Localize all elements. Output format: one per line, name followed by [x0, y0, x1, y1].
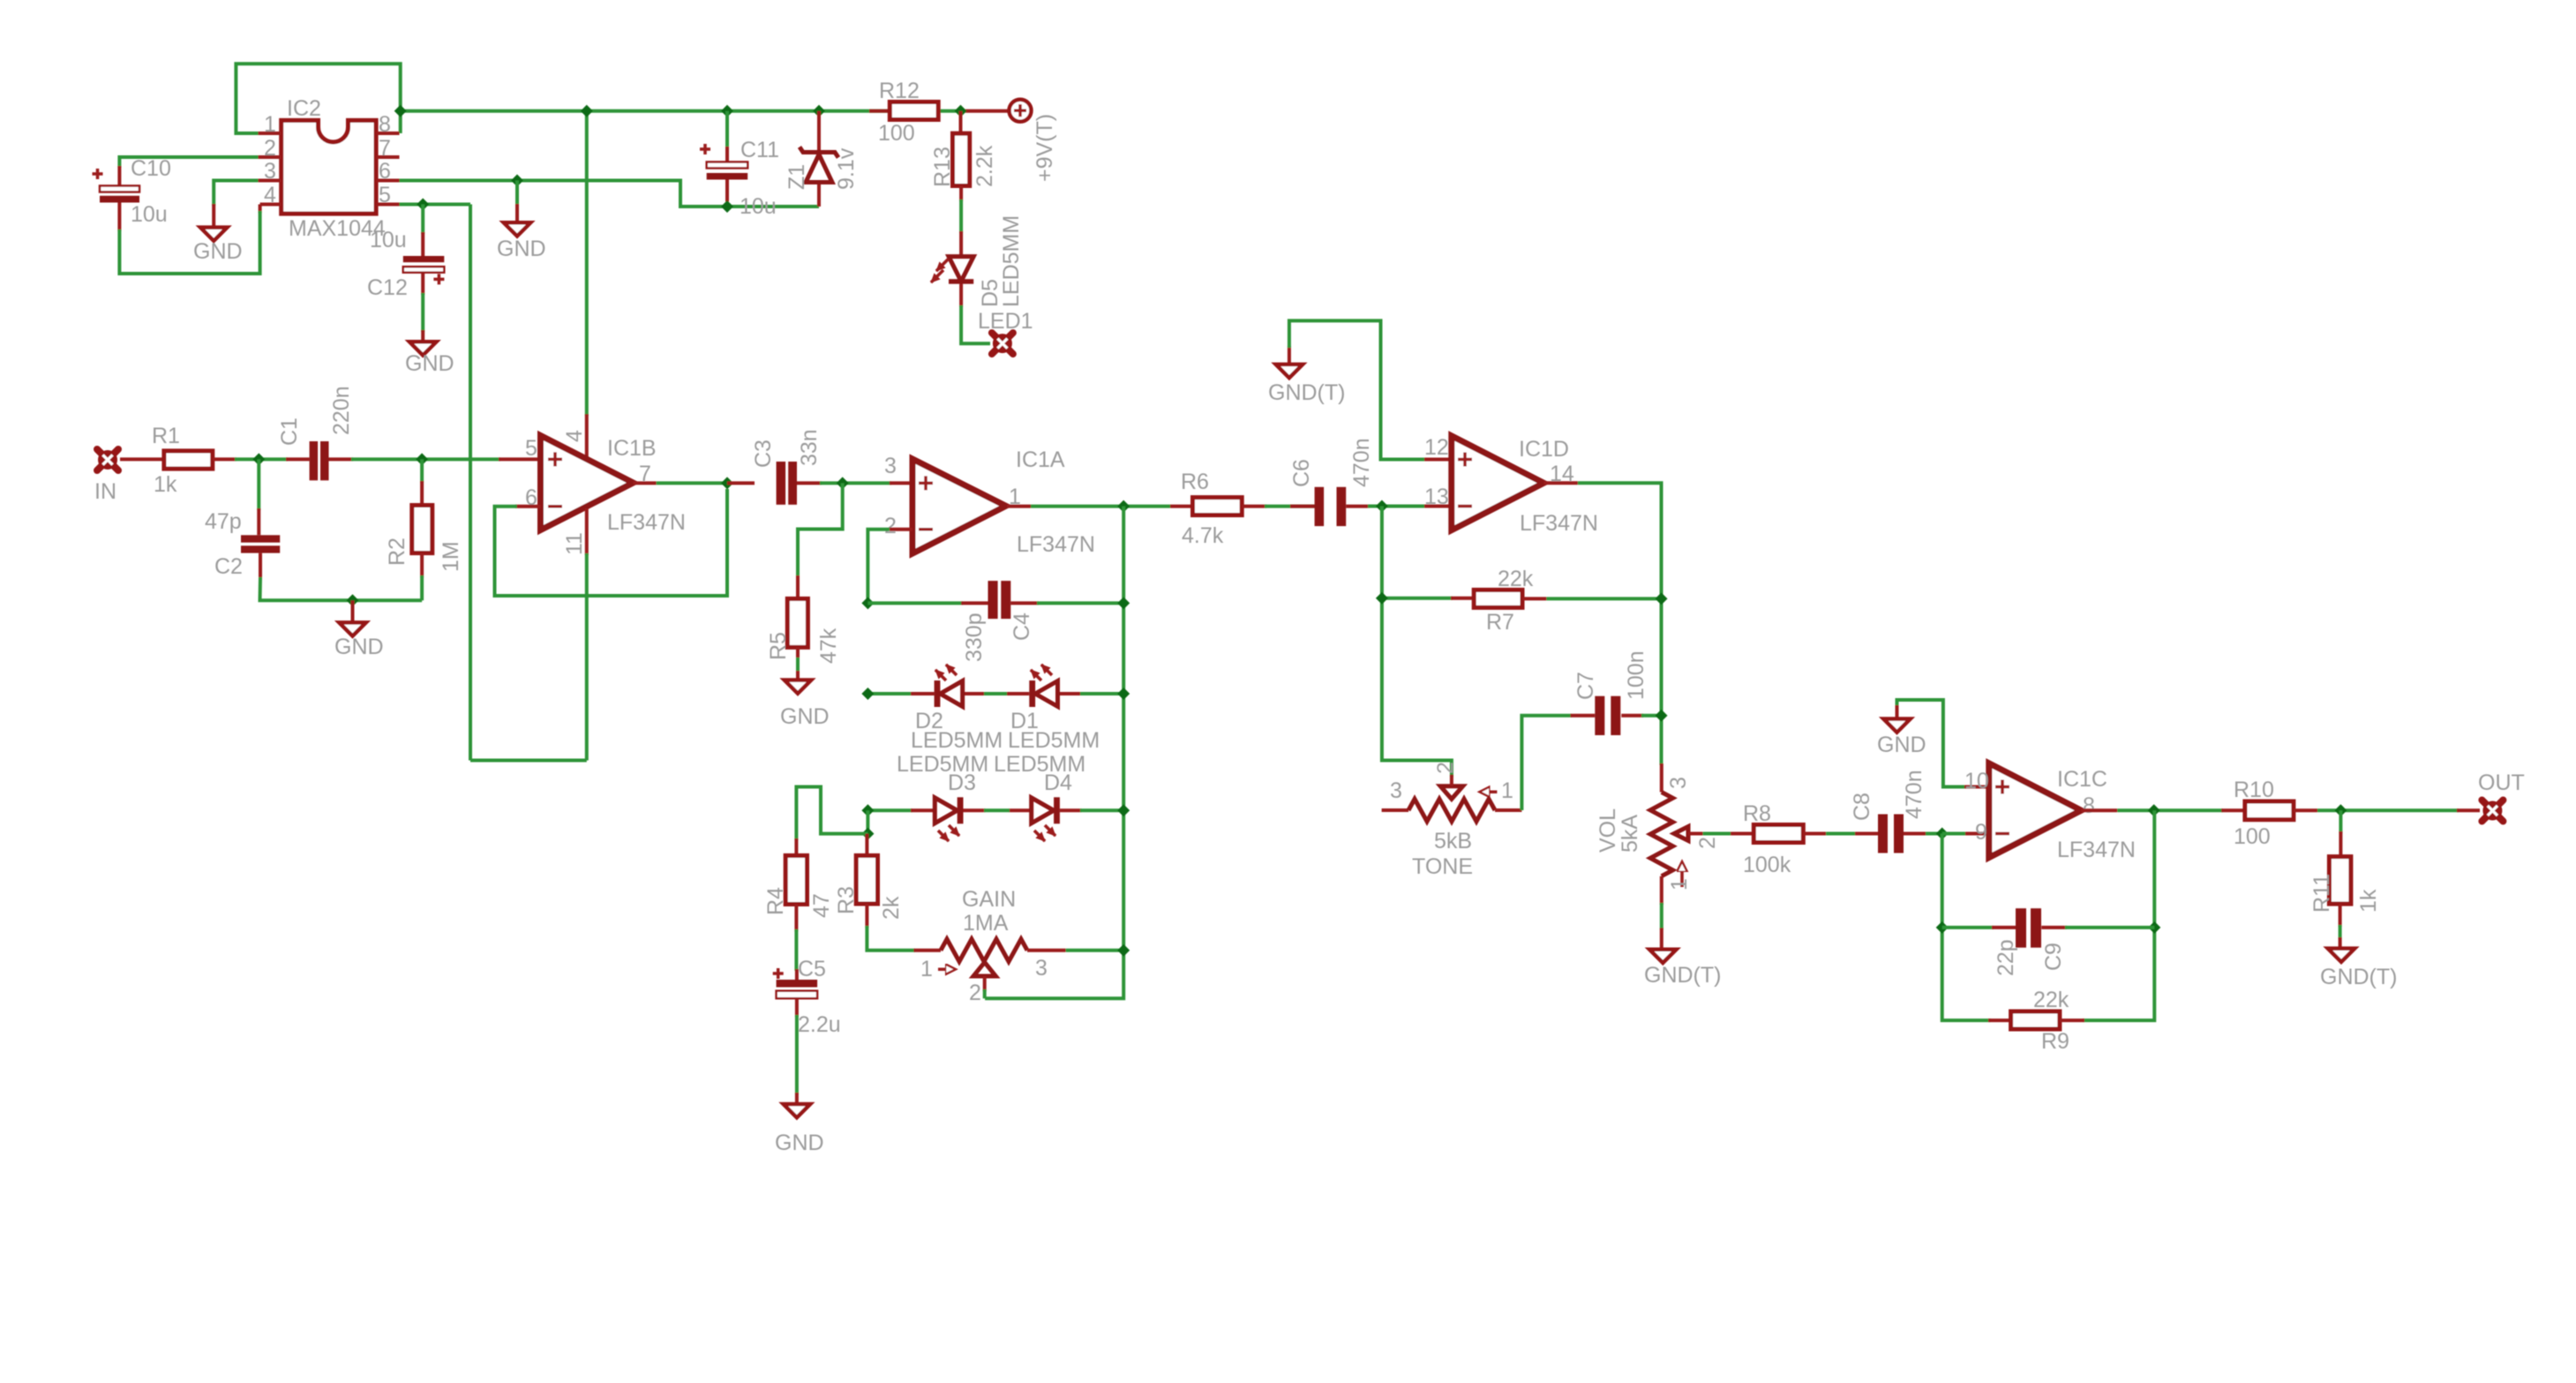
- svg-text:C7: C7: [1573, 672, 1598, 700]
- svg-text:22k: 22k: [2033, 988, 2069, 1012]
- label R9: [2041, 1029, 2069, 1054]
- svg-text:2: 2: [884, 514, 897, 538]
- node C11 bottom junction: [721, 200, 733, 213]
- ground GND (C2/R2): [334, 600, 384, 659]
- svg-text:1: 1: [264, 112, 276, 137]
- svg-text:1: 1: [1667, 878, 1692, 891]
- resistor R5: [787, 598, 807, 659]
- svg-text:4: 4: [264, 183, 276, 207]
- resistor R11: [2329, 810, 2351, 927]
- label 220n: [329, 386, 354, 435]
- resistor R13: [953, 111, 970, 201]
- label C8: [1850, 793, 1874, 821]
- svg-text:10u: 10u: [740, 194, 777, 219]
- label 470n (C8): [1902, 770, 1926, 819]
- capacitor C5: [773, 968, 817, 1017]
- op-amp IC1B: [541, 436, 634, 530]
- svg-text:3: 3: [264, 159, 276, 184]
- potentiometer VOL 5kA: [1650, 763, 1703, 905]
- wire R7 feedback row: [1382, 507, 1474, 778]
- label C12: [367, 275, 408, 300]
- label R12: [879, 79, 920, 103]
- svg-text:8: 8: [379, 112, 391, 137]
- svg-text:GND(T): GND(T): [1268, 380, 1345, 405]
- svg-text:GND(T): GND(T): [1644, 963, 1721, 988]
- svg-text:4.7k: 4.7k: [1182, 523, 1224, 548]
- wire pin6 net: [400, 181, 820, 207]
- label +9V(T): [1033, 114, 1057, 182]
- svg-text:7: 7: [379, 136, 391, 161]
- label R7: [1486, 610, 1514, 635]
- svg-text:LED5MM: LED5MM: [999, 215, 1024, 307]
- node C11 top junction: [721, 105, 733, 117]
- label LF347N (IC1A): [1017, 532, 1095, 557]
- wire C4 row: [867, 601, 1123, 605]
- label R5: [766, 632, 791, 660]
- label Z1: [785, 164, 809, 190]
- pad LED1: [992, 333, 1013, 354]
- svg-text:12: 12: [1424, 435, 1449, 460]
- label LED5MM (D2): [911, 728, 1003, 753]
- ground GND (R5): [780, 658, 830, 729]
- label 22k (R9): [2033, 988, 2069, 1012]
- svg-text:2: 2: [1433, 762, 1458, 774]
- wire R6 to C6: [1265, 505, 1316, 508]
- svg-text:220n: 220n: [329, 386, 354, 435]
- svg-text:OUT: OUT: [2478, 770, 2525, 795]
- resistor R12: [869, 102, 938, 120]
- wire C3 to IC1A pin3: [820, 481, 912, 485]
- svg-text:3: 3: [884, 454, 897, 478]
- IC2 MAX1044: [259, 120, 400, 214]
- svg-text:IC2: IC2: [287, 96, 321, 121]
- svg-text:R3: R3: [834, 886, 859, 914]
- svg-text:1MA: 1MA: [963, 911, 1009, 936]
- capacitor C4: [988, 581, 1011, 619]
- label D3: [948, 770, 976, 795]
- svg-text:1M: 1M: [439, 541, 463, 572]
- label 47: [809, 893, 834, 918]
- node R7 left junction: [1376, 592, 1388, 605]
- op-amp IC1C: [1989, 763, 2082, 858]
- node IC1B output junction: [721, 477, 733, 489]
- capacitor C12: [403, 232, 445, 295]
- svg-text:D4: D4: [1044, 770, 1072, 795]
- svg-text:LED5MM: LED5MM: [911, 728, 1003, 753]
- svg-text:C10: C10: [131, 156, 171, 181]
- supply +9V(T): [1010, 100, 1032, 122]
- wire pin5 junction down to C12: [421, 205, 424, 235]
- wire R3 to GAIN pot: [867, 926, 941, 951]
- svg-text:9.1v: 9.1v: [834, 147, 859, 190]
- label OUT: [2478, 770, 2525, 795]
- label R4: [763, 887, 788, 915]
- label C3: [751, 440, 776, 468]
- svg-text:R1: R1: [152, 424, 180, 448]
- svg-text:C8: C8: [1850, 793, 1874, 821]
- resistor R2: [412, 459, 432, 600]
- VOL pin numbers: [1666, 777, 1720, 891]
- diode D2 LED5MM: [935, 665, 963, 707]
- ground GND (C12): [405, 342, 454, 376]
- label IN: [94, 479, 116, 504]
- label VOL: [1596, 808, 1620, 853]
- label R2: [385, 537, 409, 566]
- wire R13 to D5: [959, 199, 963, 257]
- svg-text:9: 9: [1975, 820, 1987, 845]
- svg-text:IC1D: IC1D: [1519, 437, 1569, 462]
- svg-text:R11: R11: [2309, 874, 2334, 913]
- wire input net: [235, 457, 288, 461]
- label 10u (C12): [370, 228, 407, 252]
- op-amp IC1D: [1452, 436, 1544, 530]
- ground GND(T) (VOL): [1644, 950, 1721, 988]
- wire C11 top: [725, 111, 729, 148]
- svg-text:100n: 100n: [1624, 650, 1648, 700]
- label 2.2k: [973, 145, 997, 187]
- wire C12 to GND: [421, 293, 424, 342]
- label R13: [930, 147, 955, 187]
- wire C1 to IC1B pin5: [351, 457, 541, 461]
- wire IC1C output: [2081, 808, 2223, 812]
- potentiometer GAIN 1MA: [938, 939, 1123, 998]
- svg-text:2.2u: 2.2u: [798, 1012, 841, 1037]
- svg-text:100: 100: [2234, 824, 2271, 849]
- svg-text:13: 13: [1424, 485, 1449, 509]
- label 47p: [205, 509, 242, 534]
- svg-text:10: 10: [1964, 769, 1989, 793]
- wire pin2 net to C10: [119, 157, 258, 168]
- node IC1C output junction: [2148, 804, 2160, 816]
- svg-text:R6: R6: [1181, 470, 1209, 494]
- svg-text:5kA: 5kA: [1618, 815, 1642, 853]
- svg-text:100: 100: [878, 121, 915, 146]
- wire -9V rail: [470, 759, 587, 763]
- pad IN: [97, 449, 118, 470]
- node C9 left junction: [1936, 921, 1949, 934]
- svg-text:GND: GND: [497, 237, 546, 261]
- svg-text:R7: R7: [1486, 610, 1514, 635]
- svg-text:IC1C: IC1C: [2057, 767, 2107, 792]
- node input/R2 junction: [416, 453, 428, 465]
- node R11 junction: [2334, 804, 2347, 816]
- svg-text:33n: 33n: [797, 429, 822, 466]
- svg-text:2.2k: 2.2k: [973, 145, 997, 187]
- svg-text:C3: C3: [751, 440, 776, 468]
- node C2 branch junction: [252, 453, 265, 465]
- label IC1D: [1519, 437, 1569, 462]
- diode D3 LED5MM: [935, 797, 963, 841]
- svg-text:4: 4: [562, 430, 587, 442]
- svg-text:GND: GND: [193, 239, 243, 264]
- svg-text:IC1A: IC1A: [1016, 447, 1065, 472]
- svg-text:GND(T): GND(T): [2320, 965, 2397, 989]
- svg-text:IC1B: IC1B: [607, 436, 657, 461]
- ground GND (IC2 pin3): [193, 228, 243, 264]
- node GAIN right junction: [1117, 944, 1130, 957]
- capacitor C7: [1521, 696, 1661, 810]
- wire +9V supply rail: [401, 109, 959, 113]
- label C9: [2041, 943, 2066, 971]
- svg-text:5: 5: [525, 436, 537, 461]
- svg-text:C9: C9: [2041, 943, 2066, 971]
- svg-text:R5: R5: [766, 632, 791, 660]
- svg-text:C1: C1: [277, 417, 302, 446]
- label 2.2u: [798, 1012, 841, 1037]
- diode D4 LED5MM: [1032, 797, 1060, 841]
- svg-text:LED5MM: LED5MM: [1008, 728, 1100, 753]
- svg-text:D3: D3: [948, 770, 976, 795]
- label 5kA: [1618, 815, 1642, 853]
- svg-text:2: 2: [969, 981, 981, 1005]
- svg-text:6: 6: [379, 159, 391, 184]
- label C7: [1573, 672, 1598, 700]
- op-amp IC1A: [912, 459, 1006, 553]
- node pin2/C4 junction: [861, 597, 874, 609]
- label 100 (R10): [2234, 824, 2271, 849]
- node IC1A output junction: [1117, 500, 1130, 513]
- label 22p: [1994, 939, 2018, 976]
- ground GND (IC2 pin6 net): [497, 222, 546, 261]
- wire IC1D output: [1543, 483, 1661, 765]
- svg-text:R10: R10: [2234, 778, 2274, 802]
- wire C2 branch: [257, 459, 260, 535]
- wire R11 to GND(T): [2339, 925, 2342, 949]
- label R8: [1743, 801, 1771, 826]
- diode Z1 zener 9.1v: [800, 111, 838, 207]
- label LED5MM (D1): [1008, 728, 1100, 753]
- node C7 junction: [1656, 710, 1668, 722]
- capacitor C10: [93, 166, 140, 231]
- svg-text:47: 47: [809, 893, 834, 918]
- wire C5 to GND: [795, 1015, 799, 1104]
- wire right rail: [985, 507, 1123, 999]
- capacitor C6: [1290, 487, 1370, 526]
- label 22k (R7): [1498, 567, 1534, 591]
- node C4 right junction: [1117, 597, 1130, 609]
- label D1: [1010, 709, 1039, 733]
- label D4: [1044, 770, 1072, 795]
- label D5: [978, 279, 1003, 307]
- node D2 row left junction: [861, 688, 874, 700]
- label R10: [2234, 778, 2274, 802]
- svg-text:Z1: Z1: [785, 164, 809, 190]
- GAIN pin numbers: [920, 956, 1048, 1005]
- wire C9 feedback loop: [1942, 810, 2155, 1020]
- svg-text:R4: R4: [763, 887, 788, 915]
- wire IC2 pin1 to pin8 top loop: [236, 64, 400, 133]
- node pin5 junction: [417, 199, 429, 211]
- resistor R6: [1170, 498, 1266, 515]
- node D3 row right junction: [1117, 804, 1130, 816]
- label R1: [152, 424, 180, 448]
- svg-text:2k: 2k: [879, 896, 904, 920]
- svg-text:GND: GND: [775, 1131, 824, 1155]
- node D3 row left junction: [861, 804, 874, 816]
- wire GND to pin10: [1897, 700, 1989, 787]
- svg-text:2: 2: [264, 136, 276, 161]
- wire D3 row to R3/R4: [866, 810, 869, 835]
- label D2: [915, 709, 943, 733]
- svg-text:1: 1: [1501, 778, 1513, 803]
- label 100n: [1624, 650, 1648, 700]
- label 2k: [879, 896, 904, 920]
- label 1MA: [963, 911, 1009, 936]
- label LED5MM (D5): [999, 215, 1024, 307]
- svg-text:LF347N: LF347N: [1017, 532, 1095, 557]
- node R3 junction: [861, 828, 874, 840]
- wire IC1B pin6 feedback: [495, 489, 728, 596]
- label 470n (C6): [1349, 438, 1374, 487]
- IC1B pin numbers: [525, 430, 651, 555]
- svg-text:10u: 10u: [131, 202, 168, 227]
- wire VOL to GND(T): [1660, 903, 1664, 950]
- wire R10 to OUT: [2317, 808, 2480, 812]
- resistor R7: [1474, 590, 1661, 607]
- resistor R3: [856, 834, 877, 928]
- label LF347N (IC1B): [607, 510, 686, 535]
- wire GND(T) to pin12: [1289, 320, 1452, 459]
- node IC1C pin9 junction: [1936, 828, 1949, 840]
- label MAX1044: [289, 216, 386, 241]
- wire pin5 net: [400, 203, 471, 207]
- capacitor C3: [727, 462, 822, 505]
- svg-text:IN: IN: [94, 479, 116, 504]
- wire pin3 net to GND: [214, 181, 258, 228]
- label C1: [277, 417, 302, 446]
- svg-text:C11: C11: [740, 138, 779, 162]
- capacitor C1: [286, 441, 353, 480]
- ground GND(T) (R11): [2320, 949, 2397, 989]
- resistor R9: [1988, 1011, 2084, 1029]
- label TONE: [1412, 854, 1473, 879]
- node R7 right junction: [1656, 592, 1668, 605]
- label C6: [1289, 459, 1314, 487]
- svg-text:11: 11: [562, 532, 587, 555]
- ground GND (C5): [775, 1104, 824, 1155]
- svg-text:100k: 100k: [1743, 853, 1791, 877]
- label 1k (R11): [2356, 889, 2381, 913]
- wire R12 to +9V: [958, 109, 1009, 113]
- IC1D pin numbers: [1424, 435, 1574, 509]
- svg-text:C2: C2: [214, 554, 243, 579]
- svg-text:47k: 47k: [816, 628, 841, 664]
- svg-text:3: 3: [1035, 956, 1048, 981]
- svg-text:470n: 470n: [1902, 770, 1926, 819]
- svg-text:+9V(T): +9V(T): [1033, 114, 1057, 182]
- wire D5 to LED1 pad: [961, 284, 990, 344]
- resistor R1: [120, 451, 237, 469]
- node D2 row right junction: [1117, 688, 1130, 700]
- svg-text:LF347N: LF347N: [2057, 838, 2136, 862]
- wire C2 to ground rail: [260, 577, 423, 600]
- label LED1: [978, 309, 1033, 334]
- svg-text:22p: 22p: [1994, 939, 2018, 976]
- svg-text:GND: GND: [780, 704, 830, 729]
- wire IC2 pin5 rail down: [469, 205, 472, 761]
- label 100k: [1743, 853, 1791, 877]
- capacitor C2: [241, 535, 280, 578]
- pad OUT: [2482, 800, 2503, 822]
- label LF347N (IC1D): [1520, 511, 1598, 536]
- node C6 junction: [1376, 500, 1388, 513]
- IC1C pin numbers: [1964, 769, 2095, 845]
- TONE pin numbers: [1390, 762, 1513, 803]
- label 33n: [797, 429, 822, 466]
- svg-text:1k: 1k: [154, 472, 177, 497]
- label IC1C: [2057, 767, 2107, 792]
- label 1M: [439, 541, 463, 572]
- svg-text:C6: C6: [1289, 459, 1314, 487]
- label R11: [2309, 874, 2334, 913]
- svg-text:C12: C12: [367, 275, 408, 300]
- node C9 right junction: [2148, 921, 2160, 934]
- svg-text:3: 3: [1666, 777, 1691, 789]
- wire D3/D4 row: [867, 808, 1123, 812]
- wire D2/D1 row: [867, 692, 1123, 695]
- label 330p: [962, 613, 987, 662]
- label R6: [1181, 470, 1209, 494]
- label 10u: [131, 202, 168, 227]
- wire IC1B pin11 down: [585, 508, 589, 761]
- svg-text:5kB: 5kB: [1434, 829, 1472, 853]
- label C11: [740, 138, 779, 162]
- svg-text:LED1: LED1: [978, 309, 1033, 334]
- IC2 pin numbers: [264, 112, 391, 207]
- capacitor C9: [1942, 908, 2155, 948]
- wire R5 branch: [798, 483, 843, 598]
- svg-text:10u: 10u: [370, 228, 407, 252]
- svg-text:C4: C4: [1010, 613, 1034, 641]
- label IC1B: [607, 436, 657, 461]
- wire R4 jog: [796, 787, 867, 856]
- resistor R10: [2221, 801, 2317, 820]
- svg-text:LF347N: LF347N: [607, 510, 686, 535]
- diode D1 LED5MM: [1029, 665, 1057, 707]
- IC1A pin numbers: [884, 454, 1021, 538]
- wire IC1A pin2: [867, 530, 912, 605]
- wire C6 to IC1D pin13: [1368, 505, 1452, 508]
- wire R4 to C5: [794, 929, 799, 980]
- svg-text:2: 2: [1695, 837, 1720, 849]
- ground GND (IC1C pin10): [1877, 704, 1926, 758]
- svg-text:22k: 22k: [1498, 567, 1534, 591]
- svg-text:1k: 1k: [2356, 889, 2381, 913]
- svg-text:VOL: VOL: [1596, 808, 1620, 853]
- svg-text:GND: GND: [334, 635, 384, 659]
- resistor R4: [785, 855, 807, 931]
- svg-text:470n: 470n: [1349, 438, 1374, 487]
- svg-text:C5: C5: [798, 957, 826, 981]
- svg-text:GAIN: GAIN: [962, 887, 1016, 912]
- svg-text:8: 8: [2083, 793, 2095, 818]
- wire IC1A output: [1007, 505, 1170, 508]
- node pin8 junction: [394, 105, 407, 117]
- label R3: [834, 886, 859, 914]
- label LED5MM (D4): [994, 752, 1085, 777]
- svg-text:1: 1: [920, 957, 933, 981]
- label GAIN: [962, 887, 1016, 912]
- label LED5MM (D3): [897, 752, 988, 777]
- label 100 (R12): [878, 121, 915, 146]
- node V+ rail junction: [581, 105, 593, 117]
- svg-text:47p: 47p: [205, 509, 242, 534]
- wire IC1B output: [634, 481, 730, 485]
- capacitor C8: [1826, 815, 1943, 853]
- node C3/R5 junction: [837, 477, 849, 489]
- svg-text:R9: R9: [2041, 1029, 2069, 1054]
- wire pin9 stub: [1942, 832, 1989, 836]
